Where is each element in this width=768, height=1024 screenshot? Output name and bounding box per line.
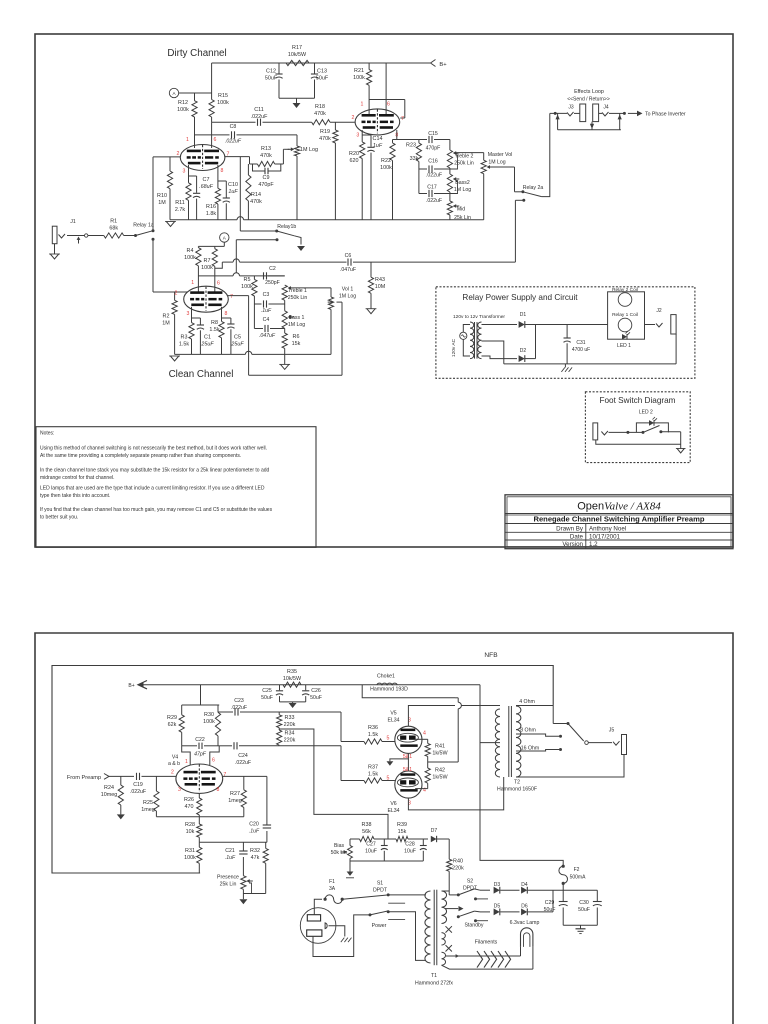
resistor R37 [364, 778, 382, 783]
svg-text:1M: 1M [162, 321, 170, 327]
T1 secondary X crossover [446, 926, 452, 932]
svg-text:C9: C9 [263, 175, 270, 181]
wire R41/R42 mid junction [428, 761, 430, 763]
wire C23 drop to R36 [340, 712, 342, 742]
wire F2 bottom [562, 883, 564, 890]
wire cathode bus V4 [156, 816, 243, 818]
svg-text:10k/5W: 10k/5W [288, 52, 307, 58]
svg-text:10uF: 10uF [404, 849, 416, 855]
svg-text:3: 3 [356, 133, 359, 139]
node A circle (dirty) [169, 88, 178, 97]
wire to pot 1M Log top [296, 135, 298, 146]
svg-text:V5: V5 [390, 711, 396, 717]
svg-text:.1uF: .1uF [225, 855, 236, 861]
svg-text:50uF: 50uF [544, 907, 556, 913]
svg-text:68k: 68k [109, 226, 118, 232]
svg-text:R18: R18 [315, 104, 325, 110]
svg-text:.047uF: .047uF [259, 333, 276, 339]
capacitor C8 [231, 131, 233, 138]
svg-text:10meg: 10meg [101, 792, 117, 798]
svg-text:C1: C1 [204, 335, 211, 341]
resistor R32 [265, 842, 267, 848]
resistor R14 [247, 164, 249, 175]
resistor R24 [120, 776, 122, 785]
svg-text:a & b: a & b [168, 761, 180, 767]
node A circle (clean) [220, 233, 229, 242]
wire effects row right [599, 112, 602, 114]
svg-text:10uF: 10uF [365, 849, 377, 855]
effects loop return wires [557, 113, 559, 129]
ground C12/C13 [296, 98, 298, 103]
svg-text:R31: R31 [185, 848, 195, 854]
wire R7 jog to bus1 [215, 262, 223, 268]
svg-text:50uF: 50uF [261, 695, 273, 701]
svg-text:D2: D2 [520, 348, 527, 354]
svg-text:R22: R22 [381, 158, 391, 164]
svg-text:R10: R10 [157, 193, 167, 199]
bias bottom bus [350, 860, 423, 862]
relay transformer primary [470, 322, 474, 359]
svg-text:To Phase Inverter: To Phase Inverter [645, 112, 686, 118]
svg-text:If you find that the clean cha: If you find that the clean channel has t… [40, 507, 273, 513]
wire relay1a to dirty grid [152, 157, 154, 231]
svg-text:C20: C20 [249, 822, 259, 828]
T1 core [433, 890, 435, 966]
capacitor C5 [222, 317, 231, 319]
wire R12 to V1 pin1 [194, 117, 196, 148]
svg-text:250pF: 250pF [265, 280, 280, 286]
svg-text:LED lamps that are used are th: LED lamps that are used are the type tha… [40, 486, 265, 492]
terminal B+ page2 [138, 681, 147, 689]
wire into Vol1 wiper [328, 301, 332, 303]
svg-text:8: 8 [225, 311, 228, 317]
svg-text:Effects Loop: Effects Loop [574, 89, 604, 95]
svg-text:1k/5W: 1k/5W [432, 751, 448, 757]
svg-text:R15: R15 [218, 93, 228, 99]
foot switch ground [677, 449, 684, 453]
wire C24 grid row to V6 [341, 780, 364, 782]
node circle input [85, 234, 88, 237]
wire R13 to pot wiper [282, 149, 284, 164]
svg-text:R36: R36 [368, 725, 378, 731]
svg-text:.022uF: .022uF [426, 173, 442, 179]
capacitor C20 [263, 824, 271, 826]
foot switch LED branch [636, 423, 668, 433]
potentiometer Vol 1 [328, 297, 333, 309]
svg-text:1meg: 1meg [228, 798, 242, 804]
supply bottom wire [563, 924, 597, 926]
T2 core [508, 706, 510, 777]
svg-text:R39: R39 [397, 822, 407, 828]
svg-text:C5: C5 [234, 335, 241, 341]
svg-text:NFB: NFB [484, 652, 498, 659]
svg-text:4 Ohm: 4 Ohm [519, 699, 535, 705]
ground C25/C26 [292, 702, 294, 703]
NFB loop wire [52, 666, 553, 874]
svg-text:1M Log: 1M Log [488, 160, 505, 166]
svg-text:6: 6 [217, 281, 220, 287]
svg-text:.022uF: .022uF [231, 705, 247, 711]
wire R29/R30 top rail [182, 704, 220, 706]
wire treble2 wiper to master vol [454, 152, 483, 154]
relay 1b [240, 230, 276, 232]
resistor R23 [416, 143, 421, 162]
capacitor C31 [566, 325, 568, 338]
svg-text:R40: R40 [453, 859, 463, 865]
svg-text:Relay1b: Relay1b [277, 224, 296, 230]
wire bias row [349, 839, 351, 846]
resistor R29 [181, 705, 183, 715]
wire R40 column [448, 839, 450, 859]
svg-text:100k: 100k [201, 265, 213, 271]
svg-text:Master Vol: Master Vol [488, 152, 513, 158]
svg-text:1: 1 [186, 137, 189, 143]
relay power supply dotted box [436, 287, 695, 379]
svg-text:C30: C30 [579, 900, 589, 906]
svg-text:2: 2 [177, 151, 180, 157]
svg-text:midrange control for that chan: midrange control for that channel. [40, 475, 115, 481]
capacitor C27 [383, 839, 385, 845]
svg-text:D3: D3 [494, 882, 501, 888]
wire C25/C26 bottom [280, 701, 306, 703]
wire plug neutral [313, 915, 370, 957]
svg-text:Bias: Bias [334, 843, 344, 849]
svg-text:V4: V4 [172, 754, 178, 760]
svg-text:Relay 1a: Relay 1a [133, 223, 154, 229]
svg-text:100k: 100k [353, 75, 365, 81]
svg-text:100k: 100k [184, 855, 196, 861]
wire screen to R41/R42 mid [430, 761, 458, 763]
pentode V6 [395, 771, 422, 798]
svg-text:1.8k: 1.8k [206, 211, 216, 217]
svg-text:R33: R33 [285, 715, 295, 721]
svg-text:470k: 470k [260, 153, 272, 159]
svg-text:25uF: 25uF [230, 342, 244, 348]
svg-text:5: 5 [387, 736, 390, 742]
relay transformer secondary [478, 322, 482, 359]
page 1 border frame [35, 34, 733, 547]
svg-text:100k: 100k [241, 284, 253, 290]
diode D4 [521, 887, 527, 894]
wire C19 to grid [142, 775, 177, 777]
ground R43 [367, 309, 375, 314]
svg-text:R34: R34 [285, 731, 295, 737]
capacitor C10 [218, 180, 226, 182]
svg-text:C16: C16 [428, 159, 438, 165]
wire to J5 [588, 742, 612, 744]
diode D1 [519, 321, 525, 328]
svg-text:6.3vac Lamp: 6.3vac Lamp [510, 920, 540, 926]
wire R33/R34 divider [278, 712, 280, 715]
wire relay secondary center tap [482, 341, 504, 364]
svg-text:3: 3 [178, 787, 181, 793]
svg-text:Bass 1: Bass 1 [289, 315, 305, 321]
svg-text:25k Lin: 25k Lin [220, 882, 237, 888]
output transformer T2 primary [495, 709, 500, 777]
svg-text:J3: J3 [568, 105, 574, 111]
capacitor C16 [419, 168, 427, 170]
resistor R15 [209, 100, 214, 118]
potentiometer Bass2 [449, 168, 451, 174]
svg-text:C19: C19 [133, 782, 143, 788]
svg-text:EL34: EL34 [387, 808, 399, 814]
chassis ground relay supply [564, 364, 566, 368]
svg-text:In the clean channel tone stac: In the clean channel tone stack you may … [40, 468, 270, 474]
capacitor C29 [562, 890, 564, 901]
svg-text:25k Lin: 25k Lin [454, 215, 471, 221]
svg-text:Filaments: Filaments [475, 940, 498, 946]
svg-text:R42: R42 [435, 768, 445, 774]
svg-text:1meg: 1meg [141, 807, 155, 813]
resistor R39 [396, 836, 408, 841]
capacitor C6 [347, 259, 349, 266]
wire vol1 bottom [330, 309, 332, 354]
wire input to R1 [67, 235, 85, 237]
resistor R28 [197, 824, 202, 837]
svg-text:Hammond 193D: Hammond 193D [370, 687, 408, 693]
svg-text:2: 2 [171, 770, 174, 776]
ground J1 [50, 254, 58, 259]
potentiometer Presence [241, 876, 246, 890]
resistor R36 [364, 739, 382, 744]
ground bus under V1/V3 [170, 219, 237, 221]
ground supply [580, 925, 582, 929]
capacitor C14 [362, 134, 371, 136]
svg-text:OpenValve / AX84: OpenValve / AX84 [577, 501, 661, 513]
svg-text:120v AC: 120v AC [451, 338, 457, 357]
presence wiper hook [243, 883, 251, 894]
svg-text:From Preamp: From Preamp [67, 775, 101, 781]
svg-text:R17: R17 [292, 45, 302, 51]
wire relay1b lower drop [235, 240, 237, 273]
svg-text:470: 470 [185, 804, 194, 810]
wire treble1 wiper row to Vol1 [291, 287, 332, 289]
svg-text:1k/5W: 1k/5W [432, 775, 448, 781]
clean ground bus [175, 353, 246, 355]
svg-text:R13: R13 [261, 146, 271, 152]
svg-text:2: 2 [352, 115, 355, 121]
svg-text:6: 6 [214, 137, 217, 143]
screen feed hop over plate row [458, 702, 461, 708]
svg-text:J1: J1 [70, 219, 76, 225]
relay 2 coil [618, 293, 632, 307]
svg-text:R16: R16 [206, 204, 216, 210]
svg-text:J4: J4 [603, 105, 609, 111]
svg-text:1.5k: 1.5k [209, 327, 219, 333]
wire B+ rail top [212, 62, 430, 64]
svg-text:C27: C27 [366, 842, 376, 848]
svg-text:.047uF: .047uF [340, 267, 356, 273]
wire B+ rail page2 [140, 684, 480, 686]
capacitor C1 [192, 317, 201, 319]
capacitor C9 [253, 164, 265, 171]
svg-text:C7: C7 [203, 177, 210, 183]
wire bus2 (clean grid feed row) [198, 275, 233, 277]
svg-text:1M Log: 1M Log [300, 147, 318, 153]
svg-text:B+: B+ [128, 683, 134, 689]
wire presence bottom [242, 889, 244, 899]
svg-text:R21: R21 [354, 68, 364, 74]
capacitor C25 [279, 685, 281, 691]
svg-text:10/17/2001: 10/17/2001 [589, 533, 621, 540]
svg-text:S2: S2 [467, 879, 473, 885]
filament twist chevrons [477, 951, 483, 968]
LED 2 [649, 420, 654, 426]
jack J4 [602, 112, 609, 116]
svg-text:F1: F1 [329, 879, 335, 885]
svg-text:C21: C21 [225, 848, 235, 854]
potentiometer Treble 1 [282, 285, 287, 300]
diode D6 [521, 909, 527, 916]
arrow to phase inverter [628, 112, 639, 114]
svg-text:120v to 12v Transformer: 120v to 12v Transformer [453, 314, 505, 320]
resistor R6 [284, 328, 286, 333]
wire bus1 up to relay2a [514, 200, 516, 262]
svg-text:470pF: 470pF [426, 146, 441, 152]
resistor R12 [194, 93, 196, 101]
svg-text:C11: C11 [254, 107, 264, 113]
wire rectifier join [535, 325, 537, 359]
capacitor C3 [254, 303, 261, 305]
wire R15 column from B+ rail [211, 63, 213, 100]
wire V4 pin1 lead [182, 746, 191, 765]
svg-text:Power: Power [372, 923, 387, 929]
svg-text:D4: D4 [521, 882, 528, 888]
wire bus up to master vol bottom [483, 174, 485, 220]
svg-text:Hammond 272fx: Hammond 272fx [415, 981, 453, 987]
ground clean bus [170, 356, 178, 361]
resistor R10 [169, 157, 171, 171]
svg-text:4: 4 [423, 731, 426, 737]
svg-text:.022uF: .022uF [426, 198, 442, 204]
svg-text:R5: R5 [244, 277, 251, 283]
jack J3 [567, 112, 574, 116]
resistor R26 [198, 793, 200, 798]
foot switch bottom wire [596, 440, 681, 444]
AC plug [300, 908, 336, 944]
wire mid bottom to bus [449, 215, 451, 220]
svg-text:Mid: Mid [457, 207, 465, 213]
svg-text:C10: C10 [228, 182, 238, 188]
diode D3 [474, 889, 480, 890]
treble2 wiper hook [450, 155, 458, 169]
resistor R43 [370, 262, 372, 277]
capacitor C2 [263, 272, 265, 279]
svg-text:Relay 1 Coil: Relay 1 Coil [612, 312, 638, 318]
svg-text:C25: C25 [262, 688, 272, 694]
svg-text:C8: C8 [230, 124, 237, 130]
ground R6 [284, 354, 286, 364]
wire plug ground pin [329, 926, 345, 937]
potentiometer Treble 2 [449, 140, 451, 151]
svg-text:R43: R43 [375, 277, 385, 283]
svg-text:Hammond 1650F: Hammond 1650F [497, 787, 537, 793]
resistor R13 [250, 163, 258, 165]
ground R24 [117, 814, 125, 819]
resistor R41 [427, 739, 429, 743]
wire plug hot to fuse [314, 899, 322, 915]
resistor R19 [334, 122, 336, 130]
wire R23 bottom column [418, 162, 420, 194]
resistor R38 [360, 836, 375, 841]
svg-text:D5: D5 [494, 904, 501, 910]
wire V2 pin7 plate out [227, 295, 249, 297]
wire V6 pin4 screen [415, 788, 428, 790]
svg-text:.1uF: .1uF [261, 308, 272, 314]
foot switch wires [609, 431, 644, 433]
svg-text:R6: R6 [293, 334, 300, 340]
relay 1 coil [618, 318, 632, 332]
svg-text:1uF: 1uF [228, 189, 238, 195]
wire V1 pin2 row [153, 156, 181, 158]
capacitor C15 [419, 139, 427, 141]
relay 2a [521, 190, 524, 193]
diode D5 [474, 910, 480, 913]
svg-text:Choke1: Choke1 [377, 674, 395, 680]
svg-text:100k: 100k [380, 165, 392, 171]
resistor R31 [198, 842, 200, 847]
svg-text:C3: C3 [263, 292, 270, 298]
resistor R25 [155, 776, 157, 791]
svg-text:type then take this into accou: type then take this into account. [40, 493, 110, 499]
T1 HV secondary [442, 891, 447, 924]
svg-text:8 Ohm: 8 Ohm [520, 728, 536, 734]
svg-text:R19: R19 [320, 129, 330, 135]
svg-text:J2: J2 [656, 308, 662, 314]
svg-text:C29: C29 [545, 900, 555, 906]
resistor R2 [174, 292, 176, 300]
svg-text:V6: V6 [390, 801, 396, 807]
wire A to R15 column [179, 92, 212, 94]
svg-text:3: 3 [187, 311, 190, 317]
svg-text:R28: R28 [185, 822, 195, 828]
svg-text:D6: D6 [521, 904, 528, 910]
cathode parts V1: resistor R11 [188, 165, 190, 183]
svg-text:50uF: 50uF [316, 76, 329, 82]
resistor R42 [425, 768, 430, 783]
wire V4 pin7 row [223, 775, 267, 777]
svg-text:50uF: 50uF [578, 907, 590, 913]
resistor R27 [243, 776, 245, 789]
svg-text:15k: 15k [398, 829, 407, 835]
relay transformer core [474, 322, 476, 359]
wire V3 pin1/6 tie [369, 99, 405, 101]
svg-text:7: 7 [223, 772, 226, 778]
svg-text:R29: R29 [167, 715, 177, 721]
resistor R35 [283, 682, 301, 687]
svg-text:15k: 15k [292, 341, 301, 347]
wire R7 to V2 pin6 [214, 266, 216, 291]
svg-text:R2: R2 [163, 314, 170, 320]
svg-text:Relay 2a: Relay 2a [523, 185, 544, 191]
wire V4 pin6 lead [210, 746, 219, 765]
svg-text:470k: 470k [319, 136, 331, 142]
wire pin6 lead [385, 100, 387, 115]
input arrow [78, 239, 80, 244]
svg-text:1.5k: 1.5k [368, 772, 378, 778]
relay 1a [124, 235, 136, 237]
svg-text:R7: R7 [204, 258, 211, 264]
wire center tap B+ [480, 685, 500, 743]
diode D7 [431, 836, 437, 842]
svg-text:2: 2 [175, 291, 178, 297]
resistor R7 [214, 246, 216, 248]
T1 mid winding [442, 933, 446, 945]
triode V1 [180, 145, 225, 171]
svg-text:T2: T2 [514, 780, 520, 786]
svg-text:<<Send / Return>>: <<Send / Return>> [567, 97, 610, 103]
speaker return wire [516, 755, 624, 778]
